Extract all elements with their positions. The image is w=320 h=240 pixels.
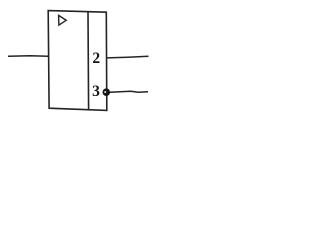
amplifier triangle symbol inside U1 xyxy=(59,15,67,25)
wire (left input to U1) xyxy=(8,55,48,57)
inner divider line of U1 output column xyxy=(87,12,90,110)
svg-text:3: 3 xyxy=(92,83,100,100)
op-amp U1 body (rectangle outline) xyxy=(48,11,107,111)
wire (pin 3 output, right of bubble) xyxy=(110,91,148,92)
svg-text:2: 2 xyxy=(92,50,100,67)
inversion bubble on pin 3 xyxy=(103,88,111,96)
wire (pin 2 output, right) xyxy=(107,56,149,58)
